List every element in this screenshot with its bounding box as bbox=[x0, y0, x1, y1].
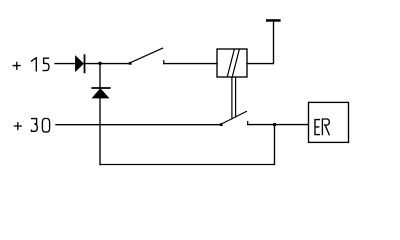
wire node A down to bottom rail bbox=[99, 64, 101, 165]
wire K1 to supply bbox=[247, 22, 274, 64]
label ER bbox=[315, 119, 329, 135]
relay coil K1 bbox=[217, 49, 247, 77]
net label +15 bbox=[13, 58, 49, 71]
diode V2 bbox=[92, 88, 109, 98]
junction node B bbox=[273, 123, 276, 126]
wire bottom return loop bbox=[100, 125, 275, 165]
wire +15 rail bbox=[55, 63, 129, 65]
junction node A bbox=[99, 62, 102, 65]
switch S2 relay contact bbox=[220, 111, 248, 126]
load box ER bbox=[309, 102, 349, 142]
wire +30 rail bbox=[56, 124, 220, 126]
wire S1 to coil K1 bbox=[164, 63, 217, 65]
net label +30 bbox=[14, 119, 49, 132]
diode V1 bbox=[76, 55, 85, 72]
mechanical link (dashed actuator line) bbox=[232, 78, 236, 119]
wire S2 to ER box bbox=[248, 124, 309, 126]
supply rail terminal bbox=[266, 19, 281, 22]
switch S1 bbox=[129, 48, 164, 65]
